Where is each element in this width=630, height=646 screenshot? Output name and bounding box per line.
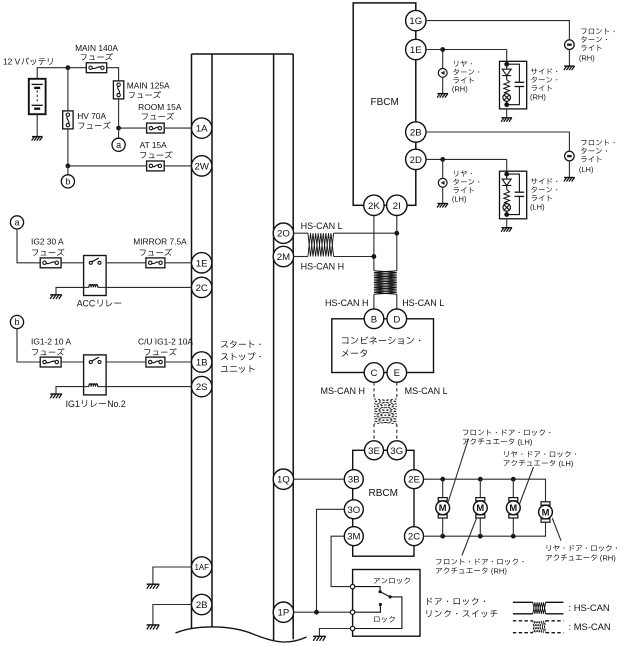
ground door lock switch — [313, 636, 326, 641]
junction actuator bus top x=442 — [440, 477, 445, 482]
ground ACC relay — [50, 295, 62, 299]
wire to side turn light RH — [506, 50, 508, 65]
label HS-CAN L — [301, 221, 343, 231]
svg-text:M: M — [542, 506, 550, 517]
svg-text:2W: 2W — [195, 161, 210, 172]
wire bus to motor top — [442, 479, 444, 497]
label HS-CAN H (meter) — [325, 298, 369, 308]
svg-text:3E: 3E — [368, 446, 380, 457]
wire C/U fuse to pin 1B — [165, 361, 192, 363]
svg-text:3M: 3M — [347, 532, 360, 543]
junction actuator bus bottom x=480 — [478, 534, 483, 539]
svg-text:3G: 3G — [390, 446, 403, 457]
legend MS-CAN symbol — [513, 621, 611, 633]
wire HS-CAN H to 2K drop — [334, 256, 374, 258]
svg-text:C/U IG1-2 10A: C/U IG1-2 10A — [138, 336, 193, 346]
label rear turn light RH — [452, 60, 479, 93]
svg-text:HV 70A: HV 70A — [77, 111, 106, 121]
wire pin 1Q to RBCM 3B — [294, 478, 345, 480]
svg-text:1G: 1G — [409, 16, 422, 27]
wire side turn light LH to ground — [506, 219, 508, 228]
relay IG1 No.2 (coil + contact) — [66, 355, 126, 409]
junction actuator bus top x=513 — [511, 477, 516, 482]
fuse HV 70A — [63, 111, 111, 129]
wire bus to motor top — [512, 479, 514, 497]
wire MS-CAN L dashed to RBCM 3G — [396, 424, 398, 441]
node a (top) — [112, 138, 125, 151]
label front turn light RH — [579, 28, 615, 62]
wire side turn light RH to ground — [506, 109, 508, 118]
junction 1P/3O — [314, 610, 319, 615]
ground side turn light RH — [501, 118, 512, 122]
connector pin 2K (FBCM) — [364, 195, 384, 215]
lamp rear turn light RH — [438, 69, 447, 78]
wire FBCM to rear/side turn light RH — [426, 49, 507, 51]
svg-text:3B: 3B — [348, 475, 360, 486]
wire FBCM to front turn light RH — [426, 21, 569, 40]
connector pin 2O (start-stop unit) — [273, 223, 293, 243]
connector pin 2M (start-stop unit) — [273, 246, 293, 266]
connector pin 2W (start-stop unit) — [192, 156, 212, 176]
svg-text:(LH): (LH) — [559, 459, 574, 468]
connector pin 2E (RBCM) — [405, 470, 424, 489]
svg-text:MAIN 125A: MAIN 125A — [127, 80, 170, 90]
wire pin 2B to ground — [153, 605, 192, 625]
svg-text:2M: 2M — [277, 252, 290, 263]
wire MIRROR fuse to pin 1E — [165, 262, 192, 264]
svg-text:2K: 2K — [368, 201, 380, 212]
wire HS-CAN L to meter D — [396, 294, 398, 309]
label front door lock actuator RH — [436, 558, 524, 575]
wire bus to motor top — [479, 479, 481, 497]
ground rear turn light LH — [437, 204, 448, 208]
svg-text:D: D — [393, 314, 400, 325]
svg-text:(RH): (RH) — [452, 85, 468, 94]
svg-text:FBCM: FBCM — [371, 97, 399, 108]
start-stop unit box — [176, 54, 307, 642]
wire IG2 fuse to ACC relay contact — [61, 262, 84, 264]
wire FBCM to front turn light LH — [426, 132, 569, 151]
node b (left) — [10, 315, 23, 328]
wire junction to node a circle — [118, 128, 120, 138]
motor front door lock actuator LH — [436, 498, 450, 518]
label MS-CAN L — [405, 386, 448, 396]
connector pin 3E (RBCM) — [365, 441, 384, 460]
leader front door lock actuator LH — [448, 439, 469, 503]
fuse MAIN 140A — [75, 43, 118, 72]
terminal unlock (door lock link switch) — [350, 584, 354, 588]
svg-text:2B: 2B — [410, 128, 422, 139]
wire MS-CAN H dashed to RBCM 3E — [373, 424, 375, 441]
fuse IG2 30 A — [31, 237, 64, 268]
node a (left) — [10, 216, 23, 229]
wire ACC relay coil to pin 2C — [106, 286, 191, 288]
wire RBCM 2C actuator bus (bottom) — [424, 522, 546, 536]
wire ROOM fuse to pin 1A — [164, 127, 191, 129]
connector pin 1A (start-stop unit) — [192, 118, 212, 138]
connector pin D (combination meter) — [387, 309, 407, 329]
wire rear turn light LH to ground — [442, 187, 444, 203]
wire FBCM to rear/side turn light LH — [426, 158, 507, 160]
lamp front turn light LH — [565, 151, 575, 161]
label side turn light LH — [530, 178, 557, 211]
svg-text:2D: 2D — [410, 155, 422, 166]
svg-text:a: a — [14, 218, 19, 228]
wire IG1-2 fuse to IG1 relay contact — [61, 361, 84, 363]
svg-text:12 V: 12 V — [3, 57, 21, 67]
ground battery — [32, 137, 43, 141]
svg-text:(LH): (LH) — [452, 195, 467, 204]
wire front turn light RH to ground — [568, 50, 570, 66]
wire pin 2M HS-CAN H — [294, 256, 308, 258]
ground rear turn light RH — [437, 94, 448, 98]
svg-text:: MS-CAN: : MS-CAN — [569, 621, 611, 632]
label side turn light RH — [530, 68, 557, 101]
connector pin 2B (FBCM) — [406, 122, 426, 142]
fuse MIRROR 7.5A — [133, 237, 187, 268]
svg-text:HS-CAN H: HS-CAN H — [325, 298, 369, 308]
connector pin B (combination meter) — [364, 309, 384, 329]
connector pin 3G (RBCM) — [387, 441, 406, 460]
motor front door lock actuator RH — [473, 498, 487, 518]
svg-text:1Q: 1Q — [277, 475, 290, 486]
svg-text:2B: 2B — [196, 600, 208, 611]
svg-text:C: C — [371, 368, 378, 379]
svg-text:AT 15A: AT 15A — [140, 140, 168, 150]
wire rear turn light RH to ground — [442, 77, 444, 93]
label door lock link switch — [427, 598, 498, 618]
junction actuator bus top x=480 — [478, 477, 483, 482]
svg-text:B: B — [371, 314, 377, 325]
junction actuator bus bottom x=442 — [440, 534, 445, 539]
label rear turn light LH — [452, 170, 479, 203]
connector pin 2I (FBCM) — [387, 195, 407, 215]
junction HS-CAN H — [372, 254, 377, 259]
svg-text:IG1-2 10 A: IG1-2 10 A — [31, 336, 71, 346]
wire ACC relay contact to MIRROR fuse — [106, 262, 146, 264]
svg-text:MIRROR 7.5A: MIRROR 7.5A — [133, 237, 187, 247]
leader rear door lock actuator LH — [520, 467, 534, 504]
wire MS-CAN H dashed (meter C) — [373, 382, 375, 399]
junction rear turn light LH — [440, 157, 445, 162]
terminal lock (door lock link switch) — [350, 626, 354, 630]
twisted pair HS-CAN (vertical) — [374, 271, 397, 295]
junction rear turn light RH — [440, 47, 445, 52]
wire HV fuse to node b — [67, 129, 69, 166]
leader front door lock actuator RH — [462, 518, 477, 555]
connector pin 1P (start-stop unit) — [273, 602, 293, 622]
junction node b feed — [66, 164, 71, 169]
junction HS-CAN L — [394, 231, 399, 236]
wire HS-CAN L to 2I drop — [334, 232, 397, 234]
fuse C/U IG1-2 10A — [138, 336, 193, 367]
motor rear door lock actuator RH — [539, 502, 553, 522]
wire HS-CAN H to meter B — [373, 294, 375, 309]
svg-text:(RH): (RH) — [530, 92, 546, 101]
ground 1AF — [147, 584, 160, 589]
connector pin E (combination meter) — [387, 363, 407, 383]
legend HS-CAN symbol — [513, 602, 610, 614]
label HS-CAN H — [301, 262, 345, 272]
wire MAIN125A fuse to node a — [118, 99, 120, 128]
label rear door lock actuator RH — [546, 545, 617, 563]
terminal common (door lock link switch) — [350, 610, 354, 614]
svg-text:2I: 2I — [393, 201, 401, 212]
wire pin 1AF to ground — [153, 567, 192, 584]
lamp rear turn light LH — [438, 178, 447, 187]
twisted pair HS-CAN (horizontal) — [308, 233, 334, 256]
wire motor bottom to bus — [512, 518, 514, 536]
connector pin 3O (RBCM) — [344, 500, 363, 519]
svg-text:2S: 2S — [196, 382, 208, 393]
wire MAIN140A fuse to MAIN125A fuse — [107, 68, 119, 81]
wire to rear turn light LH — [442, 159, 444, 178]
svg-text:1E: 1E — [196, 258, 208, 269]
wire RBCM 3M to door lock switch unlock — [331, 536, 350, 586]
ground 2B — [147, 625, 160, 630]
svg-text:(RH): (RH) — [491, 567, 507, 576]
connector pin 2D (FBCM) — [406, 149, 426, 169]
svg-text:MS-CAN L: MS-CAN L — [405, 386, 448, 396]
connector pin 3M (RBCM) — [344, 527, 363, 546]
label front door lock actuator LH — [463, 429, 551, 446]
wire node a to IG2 fuse — [17, 229, 40, 263]
wire node b to AT fuse — [68, 165, 147, 167]
svg-text:HS-CAN L: HS-CAN L — [301, 221, 343, 231]
connector pin 1B (start-stop unit) — [192, 352, 212, 372]
svg-text:RBCM: RBCM — [369, 488, 398, 499]
motor rear door lock actuator LH — [506, 498, 520, 518]
ground front turn light LH — [564, 178, 575, 182]
svg-text:E: E — [394, 368, 400, 379]
svg-text:1E: 1E — [410, 45, 422, 56]
label HS-CAN L (meter) — [402, 298, 444, 308]
wire RBCM 2E actuator bus (top) — [424, 479, 546, 502]
ground IG1 relay — [50, 394, 62, 398]
wire ACC relay coil to ground — [56, 287, 84, 294]
svg-text:M: M — [439, 502, 447, 513]
switch lever (door lock link switch) — [355, 587, 402, 629]
connector pin 1Q (start-stop unit) — [273, 469, 293, 489]
door lock link switch box — [353, 570, 420, 637]
junction node a feed — [116, 126, 121, 131]
ground front turn light RH — [564, 66, 575, 70]
wire AT fuse to pin 2W — [164, 165, 191, 167]
wire junction to node b circle — [67, 166, 69, 175]
wire to side turn light LH — [506, 159, 508, 174]
lamp front turn light RH — [565, 40, 575, 50]
svg-text:1P: 1P — [278, 608, 290, 619]
svg-text:ACC: ACC — [77, 298, 96, 308]
connector pin 2B (start-stop unit) — [192, 594, 212, 614]
svg-text:HS-CAN H: HS-CAN H — [301, 262, 345, 272]
connector pin 3B (RBCM) — [344, 470, 363, 489]
svg-text:1AF: 1AF — [194, 563, 209, 572]
connector pin C (combination meter) — [364, 363, 384, 383]
wire battery positive to MAIN 140A fuse — [37, 68, 87, 79]
side turn light RH assembly — [500, 61, 527, 109]
node b (top) — [61, 175, 74, 188]
svg-text:IG1: IG1 — [66, 399, 80, 409]
connector pin 2C (start-stop unit) — [192, 277, 212, 297]
side turn light LH assembly — [500, 171, 527, 219]
svg-text:MS-CAN H: MS-CAN H — [321, 386, 366, 396]
label front turn light LH — [579, 140, 615, 174]
module combination meter box — [332, 319, 434, 373]
junction battery bus — [66, 65, 71, 70]
svg-text:3O: 3O — [347, 505, 360, 516]
svg-text:ROOM 15A: ROOM 15A — [138, 102, 182, 112]
svg-text:(LH): (LH) — [518, 437, 533, 446]
svg-text:: HS-CAN: : HS-CAN — [569, 602, 610, 613]
svg-text:1A: 1A — [196, 124, 208, 135]
wire battery bus to HV fuse — [67, 68, 69, 111]
wire RBCM 3O to door lock switch — [317, 509, 345, 612]
svg-text:2O: 2O — [277, 229, 290, 240]
wire MS-CAN L dashed (meter E) — [396, 382, 398, 399]
svg-text:1B: 1B — [196, 358, 208, 369]
wire IG1 relay contact to C/U fuse — [106, 361, 146, 363]
wire FBCM 2K drop — [373, 216, 375, 271]
connector pin 1E (start-stop unit) — [192, 253, 212, 273]
module RBCM box — [353, 450, 414, 556]
fuse MAIN 125A — [113, 80, 170, 99]
connector pin 1G (FBCM) — [406, 10, 426, 30]
svg-text:No.2: No.2 — [107, 399, 126, 409]
svg-text:2E: 2E — [408, 475, 420, 486]
twisted pair MS-CAN (dashed) — [374, 399, 397, 424]
svg-text:IG2 30 A: IG2 30 A — [31, 237, 64, 247]
connector pin 1AF (start-stop unit) — [192, 557, 212, 577]
label MS-CAN H — [321, 386, 366, 396]
svg-text:2C: 2C — [408, 532, 420, 543]
module FBCM box — [353, 3, 416, 205]
fuse IG1-2 10 A — [31, 336, 71, 367]
svg-text:2C: 2C — [196, 283, 208, 294]
wire node b to IG1-2 fuse — [17, 329, 40, 362]
svg-text:(LH): (LH) — [530, 202, 545, 211]
wire front turn light LH to ground — [568, 161, 570, 177]
fuse ROOM 15A — [138, 102, 182, 133]
svg-text:b: b — [65, 177, 70, 187]
wire motor bottom to bus — [479, 518, 481, 536]
fuse AT 15A — [140, 140, 173, 171]
wire battery negative to ground — [36, 114, 38, 136]
connector pin 2C (RBCM) — [405, 527, 424, 546]
connector pin 1E (FBCM) — [406, 39, 426, 59]
wire to rear turn light RH — [442, 50, 444, 69]
wire pin 1P to door lock switch — [294, 611, 351, 613]
relay ACC (coil + contact) — [77, 256, 122, 309]
label rear door lock actuator LH — [504, 451, 576, 468]
wire door lock switch to ground — [319, 629, 350, 637]
svg-text:(LH): (LH) — [579, 165, 594, 174]
svg-text:M: M — [476, 502, 484, 513]
connector pin 2S (start-stop unit) — [192, 376, 212, 396]
svg-text:HS-CAN L: HS-CAN L — [402, 298, 444, 308]
svg-text:(RH): (RH) — [600, 554, 616, 563]
battery B1 12V — [3, 57, 53, 115]
wire FBCM 2I drop — [396, 216, 398, 271]
junction actuator bus bottom x=513 — [511, 534, 516, 539]
svg-text:MAIN 140A: MAIN 140A — [75, 43, 118, 53]
svg-text:a: a — [116, 140, 121, 150]
svg-text:b: b — [14, 317, 19, 327]
ground side turn light LH — [501, 228, 512, 232]
leader rear door lock actuator RH — [552, 518, 561, 541]
svg-text:M: M — [509, 502, 517, 513]
wire motor bottom to bus — [442, 518, 444, 536]
svg-text:(RH): (RH) — [579, 54, 595, 63]
wire pin 2O HS-CAN L — [294, 232, 308, 234]
wire node a to ROOM fuse — [119, 127, 147, 129]
wire IG1 relay coil to pin 2S — [106, 386, 191, 388]
wire IG1 relay coil to ground — [56, 387, 84, 394]
